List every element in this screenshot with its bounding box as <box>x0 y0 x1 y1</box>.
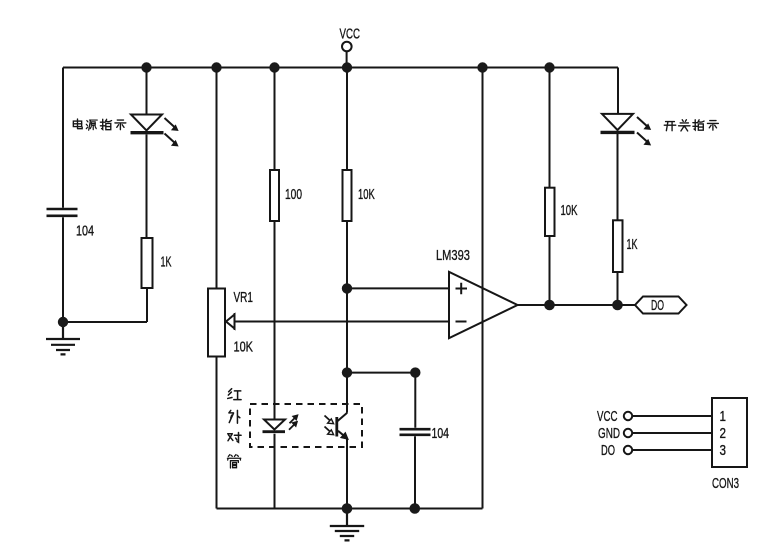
svg-text:1K: 1K <box>161 253 173 270</box>
svg-text:LM393: LM393 <box>436 246 470 263</box>
svg-text:100: 100 <box>285 185 302 203</box>
svg-text:DO: DO <box>651 297 664 314</box>
svg-text:10K: 10K <box>358 186 375 203</box>
svg-text:104: 104 <box>432 424 449 441</box>
svg-text:1: 1 <box>720 408 727 425</box>
svg-text:3: 3 <box>720 442 727 459</box>
svg-text:VCC: VCC <box>597 408 617 425</box>
svg-text:VR1: VR1 <box>234 288 253 306</box>
svg-text:DO: DO <box>601 442 615 459</box>
svg-text:CON3: CON3 <box>712 475 739 492</box>
svg-text:GND: GND <box>598 425 620 442</box>
svg-text:2: 2 <box>720 425 727 442</box>
svg-text:104: 104 <box>76 222 94 239</box>
svg-text:VCC: VCC <box>340 25 360 42</box>
svg-text:1K: 1K <box>627 236 639 253</box>
svg-text:10K: 10K <box>234 338 254 355</box>
svg-text:10K: 10K <box>561 202 578 219</box>
